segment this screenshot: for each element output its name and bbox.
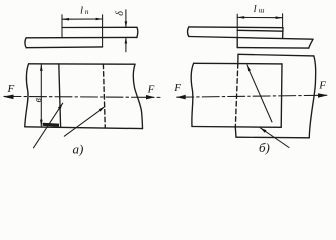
svg-text:в: в bbox=[33, 97, 44, 102]
svg-text:l: l bbox=[254, 3, 257, 15]
svg-text:F: F bbox=[7, 83, 15, 95]
svg-text:δ: δ bbox=[115, 11, 126, 16]
svg-text:F: F bbox=[318, 80, 326, 92]
svg-text:п: п bbox=[85, 7, 89, 16]
svg-text:б): б) bbox=[259, 140, 270, 155]
svg-text:ш: ш bbox=[259, 6, 265, 15]
svg-text:l: l bbox=[80, 4, 83, 16]
svg-text:F: F bbox=[147, 83, 155, 95]
svg-text:а): а) bbox=[73, 142, 84, 157]
svg-text:F: F bbox=[173, 82, 181, 94]
